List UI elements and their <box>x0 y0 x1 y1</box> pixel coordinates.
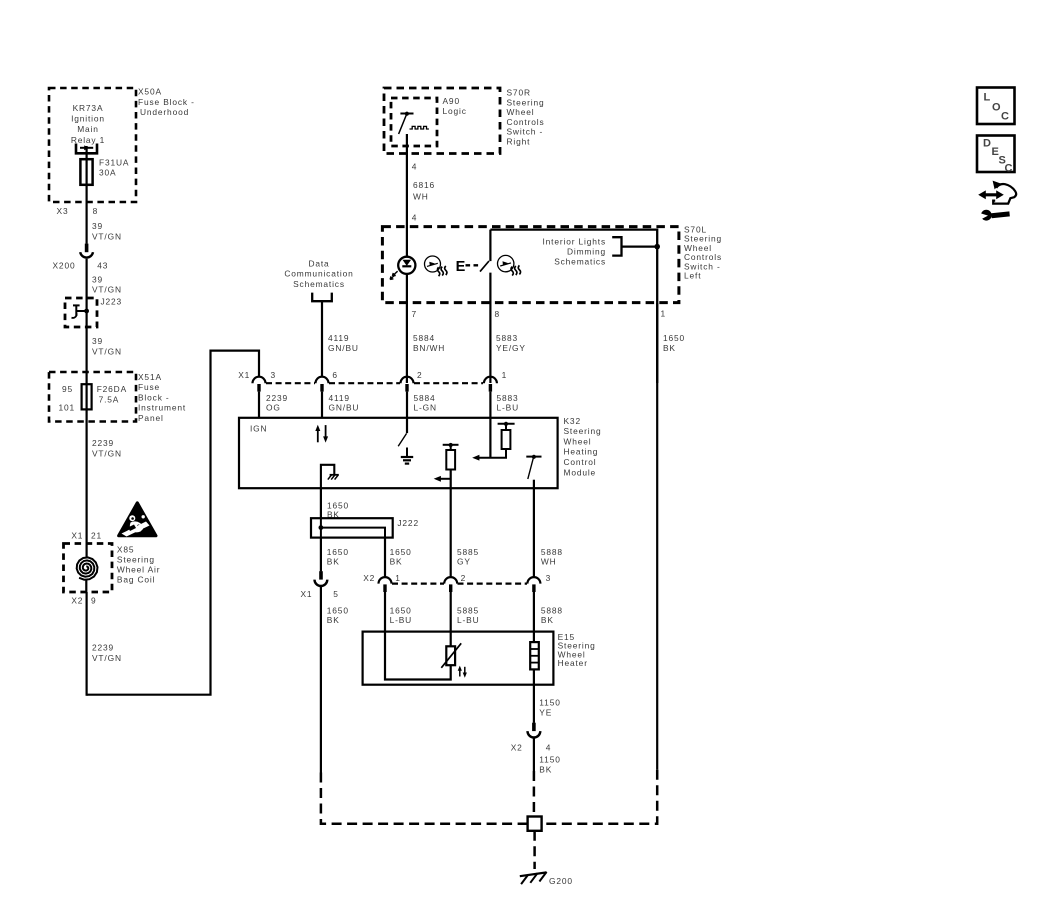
relay KR73A label <box>71 103 105 145</box>
internal switch to ground (pin 2) <box>398 418 413 464</box>
wire relay to fuse <box>85 146 87 160</box>
svg-text:Main: Main <box>77 124 99 134</box>
wire K32 to X2 3 <box>534 488 563 577</box>
svg-text:1650: 1650 <box>327 547 349 557</box>
svg-text:BK: BK <box>541 615 554 625</box>
svg-text:BK: BK <box>390 557 403 567</box>
svg-text:1650: 1650 <box>390 547 412 557</box>
wire J222 to X1 5 <box>321 538 349 572</box>
splice J222 <box>311 518 419 538</box>
svg-text:2: 2 <box>461 573 467 583</box>
svg-text:5884: 5884 <box>413 333 435 343</box>
svg-text:5885: 5885 <box>457 605 479 615</box>
connector X1 pin 6 <box>316 377 329 417</box>
svg-text:Fuse Block -: Fuse Block - <box>138 97 195 107</box>
svg-text:1150: 1150 <box>539 698 560 708</box>
svg-text:WH: WH <box>413 191 429 201</box>
svg-text:L-BU: L-BU <box>497 402 519 412</box>
svg-text:Heating: Heating <box>564 447 599 457</box>
svg-text:3: 3 <box>271 370 277 380</box>
svg-text:F26DA: F26DA <box>97 384 127 394</box>
coil spiral <box>77 544 98 593</box>
connector X2 pin 2 <box>444 577 457 646</box>
thermistor in E15 <box>385 632 467 680</box>
svg-text:5888: 5888 <box>541 547 563 557</box>
svg-text:VT/GN: VT/GN <box>92 284 122 294</box>
wire labels above X1 row <box>328 333 685 353</box>
E mechanical link and switch blade <box>456 230 491 383</box>
svg-text:OG: OG <box>266 402 281 412</box>
wire E15 to X2 4 <box>534 685 561 723</box>
svg-text:BN/WH: BN/WH <box>413 343 445 353</box>
svg-text:3: 3 <box>546 573 552 583</box>
svg-text:6816: 6816 <box>413 180 435 190</box>
fuse F26DA 7.5A <box>82 384 127 409</box>
svg-text:Relay 1: Relay 1 <box>71 135 105 145</box>
svg-text:E: E <box>456 259 466 275</box>
svg-text:Wheel: Wheel <box>564 436 592 446</box>
svg-text:1650: 1650 <box>327 605 349 615</box>
svg-text:Ignition: Ignition <box>71 114 105 124</box>
svg-text:GN/BU: GN/BU <box>328 343 359 353</box>
svg-text:K32: K32 <box>564 416 581 426</box>
internal switch (pin 3 of X2) <box>526 455 541 488</box>
svg-text:VT/GN: VT/GN <box>92 232 122 242</box>
svg-text:Communication: Communication <box>284 269 353 279</box>
svg-text:95: 95 <box>62 384 73 394</box>
svg-text:Switch -: Switch - <box>507 127 544 137</box>
svg-text:2239: 2239 <box>92 438 114 448</box>
svg-text:BK: BK <box>663 343 676 353</box>
fuse F31UA 30A <box>80 157 129 185</box>
svg-text:X2: X2 <box>363 573 375 583</box>
svg-text:X1: X1 <box>71 531 83 541</box>
inline connector X1 5 <box>301 571 339 599</box>
svg-text:F31UA: F31UA <box>99 157 129 167</box>
svg-text:X2: X2 <box>71 596 83 606</box>
svg-text:X85: X85 <box>117 545 134 555</box>
switch S70R box <box>384 88 545 154</box>
svg-text:Steering: Steering <box>564 426 602 436</box>
svg-text:5883: 5883 <box>496 333 518 343</box>
svg-text:21: 21 <box>91 531 102 541</box>
svg-text:BK: BK <box>539 764 552 774</box>
svg-text:Schematics: Schematics <box>554 257 606 267</box>
right wire 1650 BK down <box>656 303 658 770</box>
interior lights dimming reference <box>543 236 661 266</box>
svg-text:30A: 30A <box>99 167 116 177</box>
relay KR73A contact <box>76 144 97 154</box>
svg-text:1650: 1650 <box>663 333 685 343</box>
svg-text:Logic: Logic <box>443 106 467 116</box>
pins 7 8 1 below S70L <box>412 309 667 320</box>
svg-text:S70R: S70R <box>507 88 531 98</box>
connector X200 <box>53 244 109 271</box>
svg-text:GN/BU: GN/BU <box>329 402 360 412</box>
svg-text:O: O <box>992 102 1001 114</box>
svg-text:A90: A90 <box>443 96 460 106</box>
left dashed corner <box>321 773 528 824</box>
connector X1 pin 1 <box>484 377 497 417</box>
svg-text:X3: X3 <box>57 206 69 216</box>
svg-text:G200: G200 <box>549 876 573 886</box>
svg-text:Schematics: Schematics <box>293 279 345 289</box>
svg-text:Module: Module <box>564 467 597 477</box>
svg-text:VT/GN: VT/GN <box>92 346 122 356</box>
DESC button <box>977 136 1015 175</box>
svg-text:C: C <box>1005 163 1013 175</box>
svg-text:Steering: Steering <box>117 555 155 565</box>
svg-text:Fuse: Fuse <box>138 382 160 392</box>
svg-text:X50A: X50A <box>138 87 162 97</box>
wire through LED to pin 7 <box>406 227 408 383</box>
svg-text:Right: Right <box>507 137 531 147</box>
connector X1 pin 3 <box>253 377 266 417</box>
svg-text:7.5A: 7.5A <box>99 394 120 404</box>
dashed wire splice to G200 <box>533 831 536 869</box>
svg-text:9: 9 <box>91 596 97 606</box>
svg-text:Interior Lights: Interior Lights <box>543 236 607 246</box>
wire 6816 WH <box>407 134 435 227</box>
navigate tool icon <box>978 181 1016 221</box>
svg-text:1: 1 <box>395 573 401 583</box>
LOC button <box>977 88 1015 125</box>
svg-text:VT/GN: VT/GN <box>92 448 122 458</box>
connector X2 pin 1 <box>379 577 392 632</box>
svg-text:L-BU: L-BU <box>390 615 412 625</box>
switch S70L box <box>382 225 722 303</box>
airbag warning triangle <box>119 503 156 537</box>
internal sense resistor (pin 2 of X2) <box>434 443 459 488</box>
wire X200 to J223 <box>87 259 122 298</box>
svg-text:Wheel: Wheel <box>507 107 535 117</box>
wire X85 to corner <box>87 592 122 696</box>
svg-text:X200: X200 <box>53 261 76 271</box>
svg-text:X51A: X51A <box>138 372 162 382</box>
svg-text:1650: 1650 <box>390 605 412 615</box>
LED indicator <box>390 257 415 280</box>
svg-text:43: 43 <box>97 261 108 271</box>
svg-text:4119: 4119 <box>328 333 349 343</box>
wire X2 4 down <box>534 737 561 774</box>
wire K32 to X2 2 <box>451 488 479 577</box>
svg-text:Left: Left <box>684 271 701 281</box>
svg-text:8: 8 <box>495 309 501 319</box>
svg-text:VT/GN: VT/GN <box>92 653 122 663</box>
svg-text:4: 4 <box>546 743 552 753</box>
ground splice square <box>528 817 542 831</box>
svg-text:Heater: Heater <box>558 658 588 668</box>
svg-text:2: 2 <box>417 370 423 380</box>
svg-text:L-BU: L-BU <box>457 615 479 625</box>
switch contact in A90 <box>399 112 429 134</box>
svg-text:2239: 2239 <box>92 643 114 653</box>
wire labels below X2 row <box>390 605 563 625</box>
svg-text:X1: X1 <box>301 589 313 599</box>
wire X1 5 down <box>321 586 349 773</box>
logic module A90 box <box>391 96 467 146</box>
connector X1 pin 2 <box>401 377 414 417</box>
internal ground hook (1650 BK) <box>321 465 339 488</box>
svg-text:1: 1 <box>502 370 508 380</box>
fuse block X50A box <box>49 87 195 203</box>
svg-text:Wheel Air: Wheel Air <box>117 565 160 575</box>
wire fuse to X200, pin X3 8 <box>57 185 122 244</box>
svg-text:X1: X1 <box>238 370 250 380</box>
connector row X1 <box>238 370 507 383</box>
svg-text:39: 39 <box>92 275 103 285</box>
svg-text:39: 39 <box>92 221 103 231</box>
svg-text:39: 39 <box>92 336 103 346</box>
svg-text:BK: BK <box>327 615 340 625</box>
svg-text:Steering: Steering <box>507 97 545 107</box>
svg-text:YE/GY: YE/GY <box>496 343 526 353</box>
connector X2 pin 3 <box>527 577 540 642</box>
wire J223 to X51A <box>87 327 122 384</box>
internal bus line to pin 1 <box>490 230 657 383</box>
svg-text:1150: 1150 <box>539 755 560 765</box>
heater E15 box <box>363 632 596 685</box>
fuse block X51A box <box>49 372 186 423</box>
svg-text:5885: 5885 <box>457 547 479 557</box>
svg-text:L: L <box>984 92 991 104</box>
wire corner runs to K32 IGN <box>87 351 259 695</box>
dashed wire X2 4 to splice <box>533 771 536 817</box>
svg-text:1: 1 <box>661 309 667 319</box>
svg-text:Underhood: Underhood <box>140 107 189 117</box>
right dashed corner <box>542 770 658 824</box>
wire labels below X1 row <box>266 393 519 412</box>
svg-text:Panel: Panel <box>138 413 164 423</box>
lamp dimming symbol right <box>498 255 521 275</box>
pin X2 9 <box>71 596 96 606</box>
svg-text:IGN: IGN <box>250 424 267 434</box>
svg-text:J222: J222 <box>397 518 419 528</box>
wire X51A to X85 <box>87 409 122 543</box>
svg-text:D: D <box>983 138 991 150</box>
wire J222 to X2 1 <box>385 538 412 578</box>
clockspring X85 box <box>64 544 161 593</box>
svg-text:J223: J223 <box>101 297 123 307</box>
svg-text:Instrument: Instrument <box>138 403 186 413</box>
data communication schematics reference <box>284 258 353 377</box>
svg-text:X2: X2 <box>511 743 523 753</box>
lamp dimming symbol left <box>425 256 447 276</box>
svg-text:6: 6 <box>332 370 338 380</box>
svg-text:8: 8 <box>93 206 99 216</box>
svg-text:Bag Coil: Bag Coil <box>117 575 155 585</box>
svg-text:Control: Control <box>564 457 597 467</box>
wire K32 to J222 <box>321 488 349 519</box>
heater element in E15 <box>530 642 539 685</box>
svg-text:5: 5 <box>333 589 339 599</box>
svg-text:GY: GY <box>457 557 471 567</box>
splice J223 <box>65 297 122 328</box>
inline connector X2 4 <box>511 723 552 753</box>
svg-text:7: 7 <box>412 309 418 319</box>
internal pullup and sense (pin 1) <box>472 418 514 461</box>
svg-text:C: C <box>1001 111 1009 123</box>
svg-text:Controls: Controls <box>507 117 545 127</box>
svg-text:WH: WH <box>541 557 557 567</box>
svg-text:4: 4 <box>412 162 418 172</box>
svg-text:Dimming: Dimming <box>567 246 606 256</box>
svg-text:YE: YE <box>539 707 552 717</box>
svg-text:101: 101 <box>59 403 76 413</box>
bidirectional data arrows <box>315 425 328 443</box>
svg-text:BK: BK <box>327 557 340 567</box>
svg-text:KR73A: KR73A <box>73 103 104 113</box>
pin X1 21 <box>71 531 102 541</box>
svg-text:Data: Data <box>308 258 329 268</box>
module K32 box <box>239 416 602 488</box>
svg-text:4: 4 <box>412 213 418 223</box>
connector row X2 <box>363 573 551 584</box>
svg-text:Block -: Block - <box>138 392 170 402</box>
ground G200 <box>520 872 573 886</box>
svg-text:5888: 5888 <box>541 605 563 615</box>
svg-text:L-GN: L-GN <box>414 402 437 412</box>
